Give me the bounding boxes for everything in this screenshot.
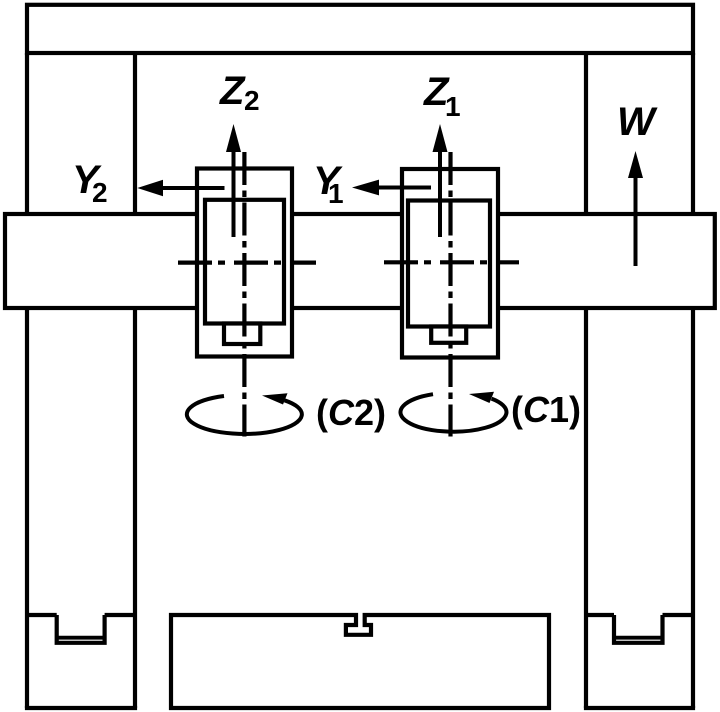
centerline S2 horizontal (178, 261, 316, 265)
right column bottom (584, 706, 695, 710)
left column left wall (25, 53, 29, 708)
left column right wall (133, 53, 137, 708)
tool holder S1 (431, 327, 466, 343)
svg-text:2: 2 (244, 85, 260, 116)
right column left wall (584, 53, 588, 708)
left groove liner (55, 636, 107, 640)
svg-text:2: 2 (92, 177, 108, 208)
top bar (27, 5, 693, 53)
svg-text:1: 1 (328, 178, 344, 209)
Z2 arrow (226, 124, 241, 237)
spindle body S1 (408, 201, 490, 327)
svg-text:(C1): (C1) (511, 389, 581, 430)
rotation arc C2 (187, 393, 302, 434)
tool holder S2 (224, 324, 260, 345)
Y1 arrow (352, 180, 431, 196)
svg-text:Z: Z (219, 69, 246, 113)
spindle body S2 (205, 200, 284, 324)
spindle housing S2 (197, 169, 292, 357)
spindle housing S1 (402, 169, 498, 358)
right groove liner (612, 636, 664, 640)
W arrow (628, 151, 643, 266)
base (171, 615, 549, 708)
svg-text:1: 1 (445, 91, 461, 122)
rotation arc C1 (400, 392, 506, 432)
centerline C1 vertical (448, 152, 452, 437)
right column right wall (691, 53, 695, 708)
left groove (57, 615, 105, 643)
left column ledge (27, 613, 57, 617)
centerline S1 horizontal (384, 260, 519, 264)
Y2 arrow (137, 180, 224, 196)
crossbeam (5, 214, 715, 308)
centerline C2 vertical (242, 152, 246, 437)
Z1 arrow (433, 124, 448, 237)
right column ledge (586, 613, 614, 617)
svg-text:(C2): (C2) (316, 392, 386, 433)
svg-text:W: W (617, 100, 658, 144)
right groove (614, 615, 663, 643)
left column bottom (25, 706, 137, 710)
